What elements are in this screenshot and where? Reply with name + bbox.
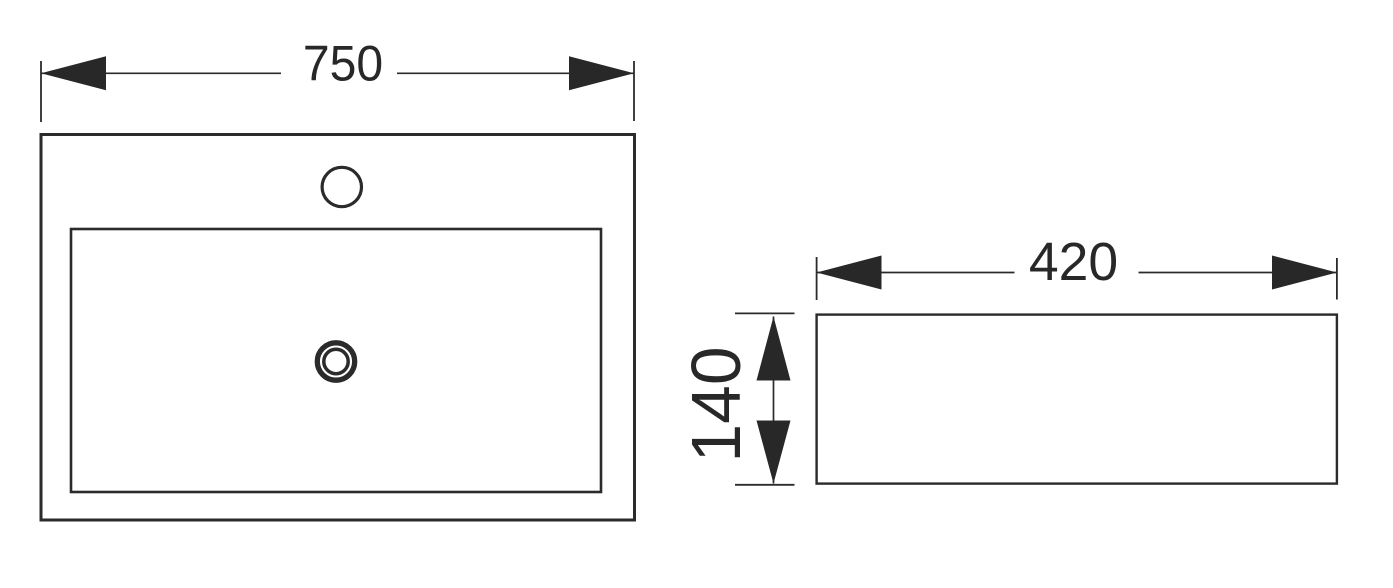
extension line bottom (140 dim) bbox=[735, 484, 795, 486]
faucet hole circle bbox=[322, 167, 361, 206]
side view rectangle bbox=[817, 315, 1337, 484]
dimension line 750 right segment bbox=[397, 72, 634, 74]
extension line right (420 dim) bbox=[1336, 258, 1338, 300]
dimension line 420 right segment bbox=[1139, 272, 1337, 274]
arrowhead left (750) bbox=[41, 56, 106, 90]
extension line left (420 dim) bbox=[816, 257, 818, 300]
drain inner circle bbox=[324, 349, 348, 373]
arrowhead right (420) bbox=[1272, 256, 1337, 290]
extension line left (750 dim) bbox=[40, 61, 42, 122]
drain outer circle bbox=[317, 343, 354, 380]
extension line right (750 dim) bbox=[633, 61, 635, 121]
arrowhead up (140) bbox=[757, 317, 791, 381]
arrowhead left (420) bbox=[817, 256, 882, 290]
dimension line 750 left segment bbox=[41, 72, 281, 74]
inner basin rectangle (top view) bbox=[71, 229, 601, 492]
dimension line 140 vertical bbox=[773, 317, 775, 484]
extension line top (140 dim) bbox=[735, 312, 795, 314]
arrowhead right (750) bbox=[569, 56, 634, 90]
svg-text:750: 750 bbox=[303, 36, 383, 92]
dimension line 420 left segment bbox=[817, 272, 1015, 274]
svg-text:140: 140 bbox=[677, 347, 755, 463]
svg-text:420: 420 bbox=[1029, 233, 1118, 292]
arrowhead down (140) bbox=[757, 421, 791, 484]
outer basin rectangle (top view) bbox=[41, 135, 635, 521]
